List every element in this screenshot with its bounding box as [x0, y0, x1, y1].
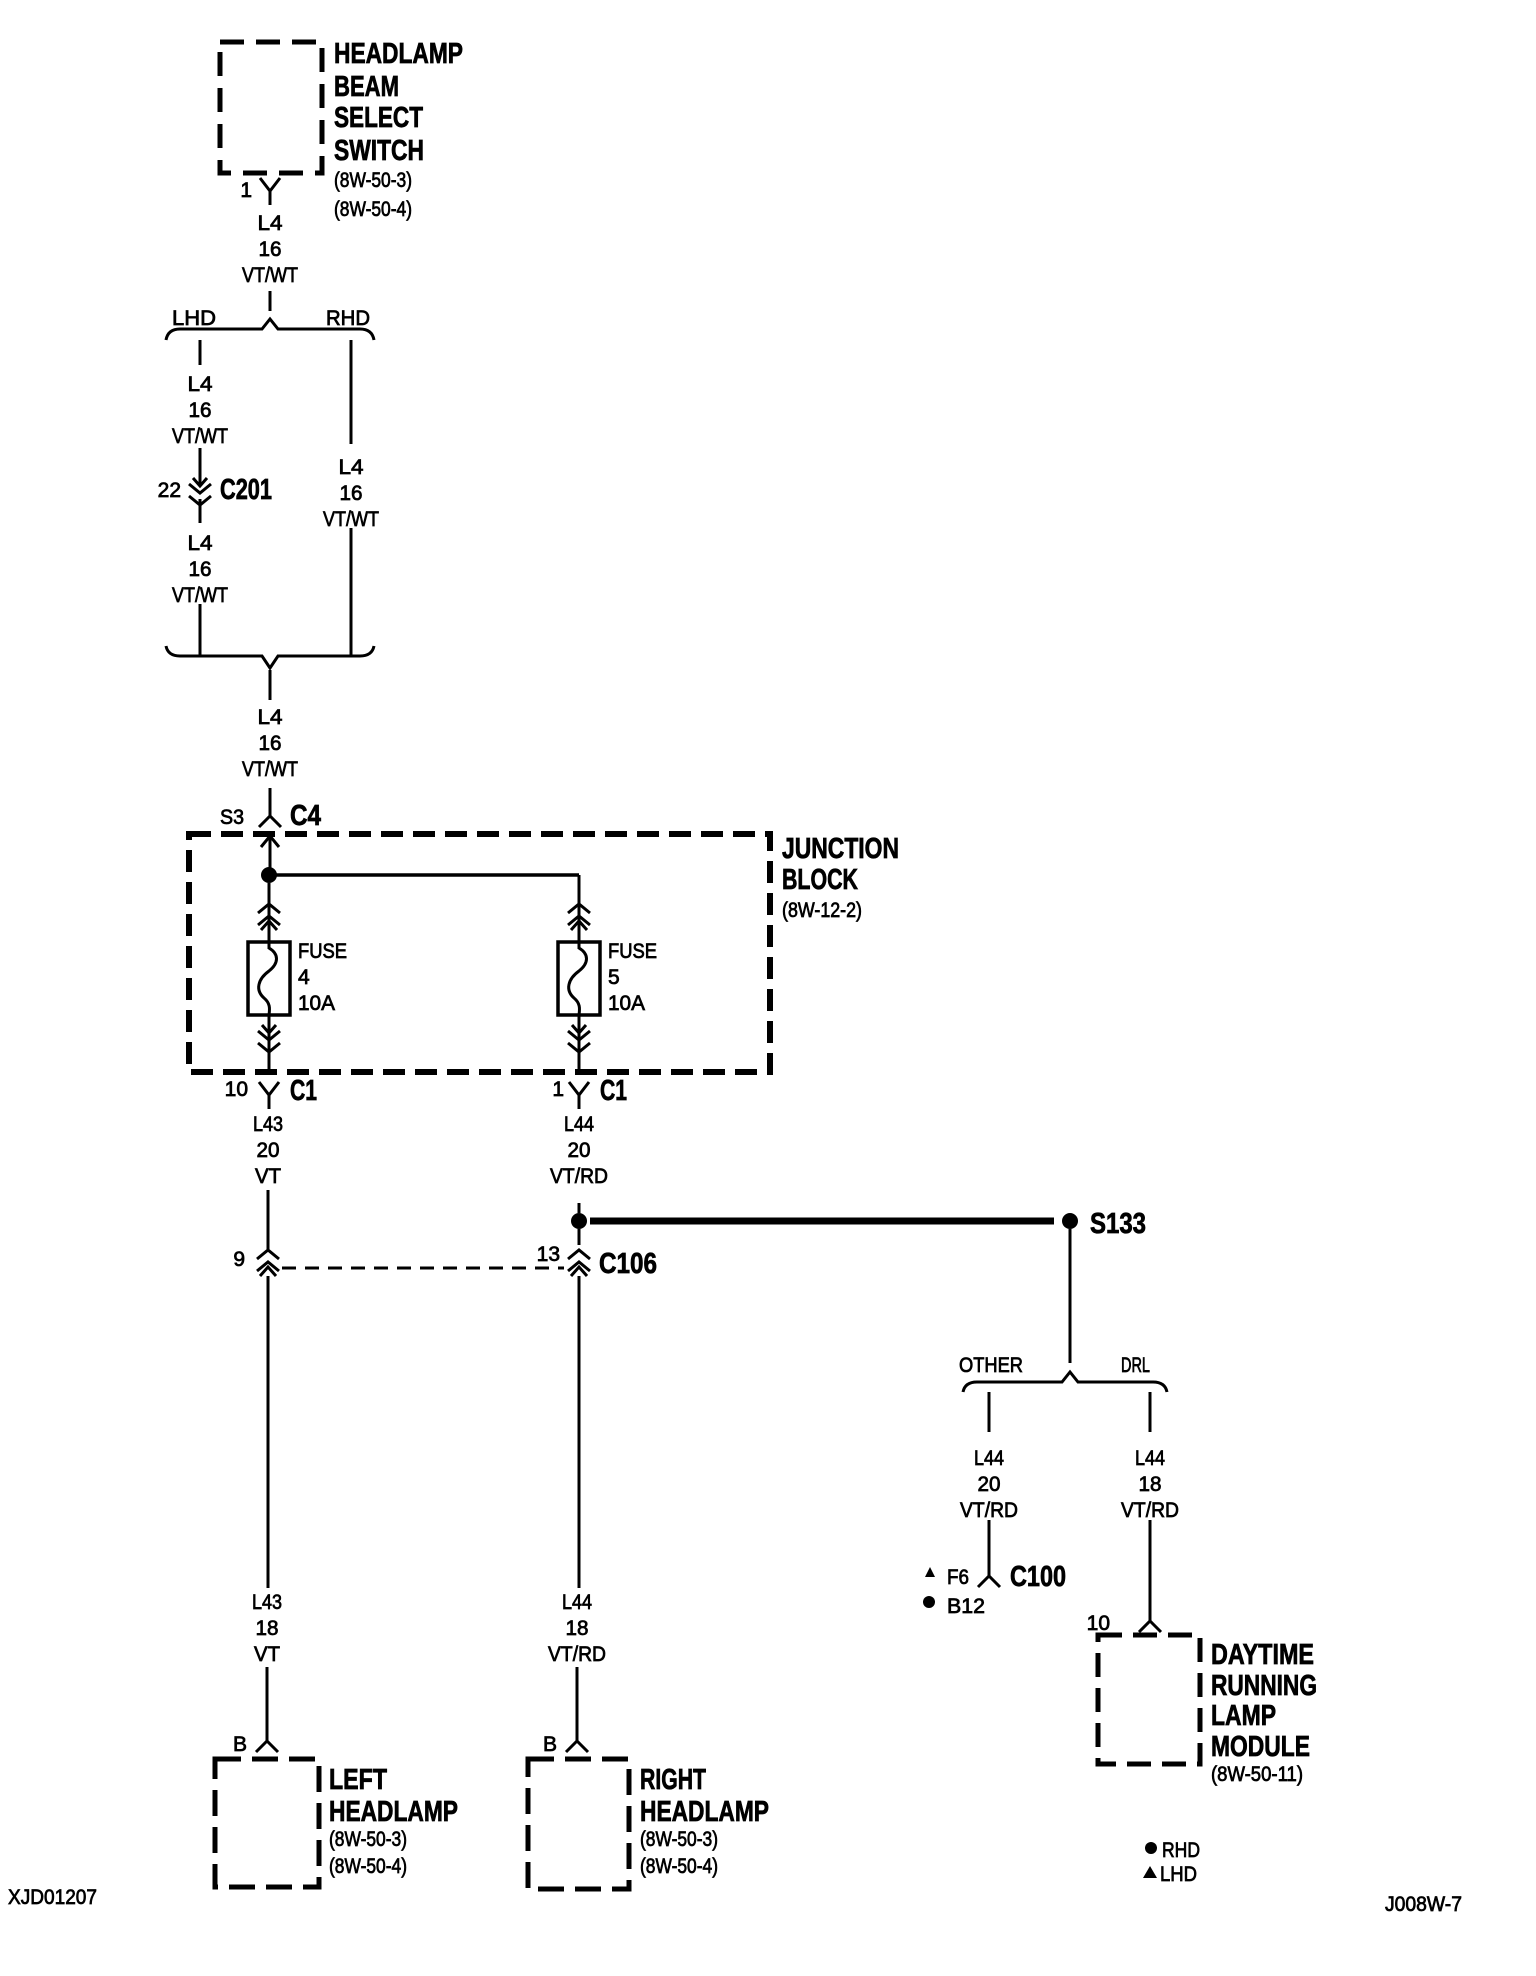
- svg-text:BLOCK: BLOCK: [782, 864, 858, 896]
- svg-text:J008W-7: J008W-7: [1385, 1893, 1462, 1916]
- RHD dot marker (B12): [923, 1596, 935, 1608]
- svg-text:(8W-50-4): (8W-50-4): [640, 1855, 718, 1878]
- L43 wire to left headlamp: [267, 1276, 270, 1588]
- wire code L44 18 VT/RD (right): [548, 1591, 606, 1666]
- svg-text:VT/RD: VT/RD: [548, 1643, 606, 1666]
- svg-text:LEFT: LEFT: [329, 1764, 387, 1796]
- svg-text:4: 4: [298, 966, 310, 989]
- fuse 5 feed chevrons: [568, 904, 590, 913]
- wire code L4 16 VT/WT (below C201): [172, 532, 228, 607]
- svg-text:XJD01207: XJD01207: [8, 1886, 97, 1909]
- svg-text:SWITCH: SWITCH: [334, 135, 424, 167]
- left headlamp box: [215, 1759, 319, 1887]
- svg-text:B12: B12: [947, 1595, 985, 1618]
- wire to LHD/RHD split: [269, 291, 272, 311]
- svg-text:RHD: RHD: [326, 307, 370, 330]
- svg-text:16: 16: [189, 399, 212, 422]
- DRL wire to module: [1149, 1520, 1152, 1621]
- wire code L44 18 VT/RD (DRL): [1121, 1447, 1179, 1522]
- fuse 4 output chevrons: [262, 1025, 276, 1033]
- svg-text:9: 9: [233, 1248, 245, 1271]
- LHD/RHD split brace: [166, 319, 374, 340]
- wire node to pin 13: [578, 1229, 581, 1245]
- svg-text:VT: VT: [254, 1643, 280, 1666]
- svg-text:VT/WT: VT/WT: [172, 425, 228, 448]
- junction block label: [782, 833, 899, 896]
- svg-text:VT/WT: VT/WT: [323, 508, 379, 531]
- connector C1 right (Y): [569, 1082, 589, 1109]
- svg-text:C1: C1: [290, 1075, 317, 1107]
- wire down to fuse 5: [578, 875, 581, 942]
- svg-text:13: 13: [537, 1243, 560, 1266]
- svg-text:C106: C106: [599, 1248, 657, 1280]
- svg-text:LHD: LHD: [1160, 1863, 1197, 1886]
- LHD wire into C201: [199, 448, 202, 486]
- svg-text:RHD: RHD: [1162, 1839, 1200, 1862]
- svg-text:S3: S3: [220, 806, 244, 829]
- svg-text:FUSE: FUSE: [298, 940, 347, 963]
- legend LHD triangle: [1143, 1866, 1157, 1878]
- svg-text:B: B: [543, 1733, 557, 1756]
- connector pin 10 symbol: [1139, 1621, 1161, 1632]
- wire down to fuse 4: [268, 883, 271, 942]
- wire below merge: [269, 670, 272, 700]
- svg-text:LHD: LHD: [172, 307, 216, 330]
- svg-text:DAYTIME: DAYTIME: [1211, 1639, 1314, 1671]
- daytime running lamp module box: [1098, 1635, 1200, 1764]
- LHD triangle marker (F6): [925, 1567, 935, 1577]
- splice S133: [1062, 1213, 1078, 1229]
- svg-text:VT/WT: VT/WT: [172, 584, 228, 607]
- LHD wire below C201: [199, 499, 202, 523]
- S133 wire down: [1069, 1229, 1072, 1363]
- svg-text:VT/RD: VT/RD: [960, 1499, 1018, 1522]
- svg-text:B: B: [233, 1733, 247, 1756]
- fuse 5 output chevrons: [572, 1025, 586, 1033]
- svg-text:L4: L4: [188, 373, 213, 396]
- svg-text:C100: C100: [1010, 1561, 1066, 1593]
- LHD wire to merge: [199, 604, 202, 656]
- svg-text:(8W-50-3): (8W-50-3): [640, 1828, 718, 1851]
- wire code L4 16 VT/WT: [242, 212, 298, 287]
- left headlamp label: [329, 1764, 458, 1828]
- wire code L43 18 VT: [252, 1591, 282, 1666]
- connector B left symbol: [256, 1741, 278, 1752]
- right headlamp box: [528, 1759, 629, 1889]
- svg-text:18: 18: [256, 1617, 279, 1640]
- svg-text:L44: L44: [562, 1591, 592, 1614]
- wire into C4: [269, 788, 272, 816]
- connector pin 1 (Y): [260, 178, 280, 205]
- svg-text:RUNNING: RUNNING: [1211, 1670, 1317, 1702]
- fuse 4: [248, 942, 290, 1015]
- node feed crossbar: [269, 873, 579, 877]
- wire into left headlamp: [266, 1667, 269, 1741]
- svg-text:L4: L4: [258, 212, 283, 235]
- wire to node: [269, 836, 272, 875]
- svg-text:16: 16: [189, 558, 212, 581]
- svg-text:DRL: DRL: [1121, 1354, 1150, 1377]
- svg-text:16: 16: [259, 732, 282, 755]
- svg-text:C4: C4: [290, 800, 321, 832]
- svg-text:MODULE: MODULE: [1211, 1731, 1310, 1763]
- connector C1 left (Y): [259, 1082, 279, 1109]
- wire code L43 20 VT: [253, 1113, 283, 1188]
- svg-text:SELECT: SELECT: [334, 102, 423, 134]
- svg-text:22: 22: [158, 479, 181, 502]
- svg-text:L4: L4: [188, 532, 213, 555]
- svg-text:LAMP: LAMP: [1211, 1700, 1276, 1732]
- node (fuse feed): [261, 867, 277, 883]
- L44 wire to right headlamp: [578, 1276, 581, 1588]
- svg-text:(8W-50-3): (8W-50-3): [334, 169, 412, 192]
- OTHER/DRL split brace: [963, 1372, 1167, 1392]
- bus wire to S133: [590, 1218, 1054, 1225]
- svg-text:1: 1: [240, 179, 252, 202]
- svg-text:18: 18: [1139, 1473, 1162, 1496]
- LHD/RHD merge brace: [166, 646, 374, 668]
- svg-text:L4: L4: [339, 456, 364, 479]
- svg-text:L44: L44: [974, 1447, 1004, 1470]
- right headlamp label: [640, 1764, 769, 1828]
- svg-text:10: 10: [225, 1078, 248, 1101]
- fuse 5 output wire: [578, 1015, 581, 1072]
- switch label: [334, 38, 463, 167]
- DRL module label: [1211, 1639, 1317, 1763]
- svg-text:OTHER: OTHER: [959, 1354, 1023, 1377]
- connector C106 pin 13 chevrons: [568, 1250, 590, 1259]
- svg-text:1: 1: [552, 1078, 564, 1101]
- svg-text:(8W-50-11): (8W-50-11): [1211, 1763, 1303, 1786]
- svg-text:VT/WT: VT/WT: [242, 264, 298, 287]
- svg-text:L43: L43: [252, 1591, 282, 1614]
- svg-text:VT/RD: VT/RD: [1121, 1499, 1179, 1522]
- svg-text:18: 18: [566, 1617, 589, 1640]
- svg-text:(8W-50-4): (8W-50-4): [329, 1855, 407, 1878]
- svg-text:10A: 10A: [608, 992, 645, 1015]
- wire code L4 16 VT/WT (merged): [242, 706, 298, 781]
- svg-text:HEADLAMP: HEADLAMP: [329, 1796, 458, 1828]
- svg-text:C201: C201: [220, 474, 272, 506]
- svg-text:(8W-50-4): (8W-50-4): [334, 198, 412, 221]
- headlamp beam select switch box: [220, 42, 322, 173]
- LHD branch wire upper: [199, 340, 202, 365]
- svg-text:C1: C1: [600, 1075, 627, 1107]
- junction block box: [189, 834, 770, 1072]
- fuse 5: [558, 942, 600, 1015]
- svg-text:L4: L4: [258, 706, 283, 729]
- svg-text:20: 20: [257, 1139, 280, 1162]
- connector C100 symbol: [978, 1576, 1000, 1587]
- svg-text:5: 5: [608, 966, 620, 989]
- wire into node S-split: [578, 1203, 581, 1213]
- svg-text:VT/WT: VT/WT: [242, 758, 298, 781]
- svg-text:20: 20: [978, 1473, 1001, 1496]
- DRL branch wire: [1149, 1392, 1152, 1432]
- svg-text:VT/RD: VT/RD: [550, 1165, 608, 1188]
- connector C4 symbol: [259, 816, 281, 827]
- svg-text:10A: 10A: [298, 992, 335, 1015]
- svg-text:VT: VT: [255, 1165, 281, 1188]
- svg-text:20: 20: [568, 1139, 591, 1162]
- wire code L44 20 VT/RD: [550, 1113, 608, 1188]
- svg-text:F6: F6: [947, 1566, 969, 1589]
- svg-text:JUNCTION: JUNCTION: [782, 833, 899, 865]
- legend RHD dot: [1145, 1842, 1157, 1854]
- svg-text:16: 16: [259, 238, 282, 261]
- arrow into junction block: [261, 836, 279, 847]
- OTHER wire to C100: [988, 1520, 991, 1576]
- svg-text:10: 10: [1087, 1612, 1110, 1635]
- svg-text:L44: L44: [1135, 1447, 1165, 1470]
- svg-text:HEADLAMP: HEADLAMP: [334, 38, 463, 70]
- wire code L4 16 VT/WT (LHD): [172, 373, 228, 448]
- C106 dashed link: [282, 1267, 564, 1270]
- svg-text:FUSE: FUSE: [608, 940, 657, 963]
- svg-text:RIGHT: RIGHT: [640, 1764, 706, 1796]
- wire into right headlamp: [576, 1667, 579, 1741]
- connector B right symbol: [566, 1741, 588, 1752]
- svg-text:(8W-50-3): (8W-50-3): [329, 1828, 407, 1851]
- OTHER branch wire: [988, 1392, 991, 1432]
- svg-text:BEAM: BEAM: [334, 71, 399, 103]
- svg-text:L44: L44: [564, 1113, 594, 1136]
- svg-text:L43: L43: [253, 1113, 283, 1136]
- wire code L44 20 VT/RD (OTHER): [960, 1447, 1018, 1522]
- fuse 4 feed chevrons: [258, 904, 280, 913]
- svg-text:(8W-12-2): (8W-12-2): [782, 899, 862, 922]
- RHD wire to merge: [350, 528, 353, 656]
- fuse 4 output wire: [268, 1015, 271, 1072]
- connector C201 chevrons: [193, 478, 207, 486]
- svg-text:HEADLAMP: HEADLAMP: [640, 1796, 769, 1828]
- wire code L4 16 VT/WT (RHD): [323, 456, 379, 531]
- node at C106: [571, 1213, 587, 1229]
- RHD branch wire upper: [350, 340, 353, 444]
- connector C106 pin 9 chevrons: [257, 1250, 279, 1259]
- L43 wire to C106 pin 9: [267, 1190, 270, 1249]
- svg-text:16: 16: [340, 482, 363, 505]
- svg-text:S133: S133: [1090, 1208, 1146, 1240]
